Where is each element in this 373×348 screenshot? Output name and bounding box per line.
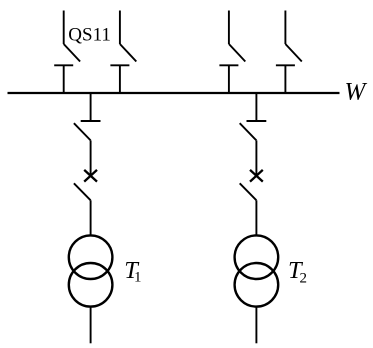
breaker contact cross stroke 1 — [84, 170, 97, 182]
svg-text:QS11: QS11 — [68, 24, 111, 45]
disconnect switch QS11 — [54, 11, 80, 95]
wire: right feeder stub from bus — [255, 93, 257, 121]
breaker blade — [74, 183, 91, 200]
QS22 blade — [285, 44, 301, 62]
wire: right feeder between disconnect and breaker — [255, 140, 257, 175]
QS12 fixed contact bar — [110, 64, 129, 66]
label T1 — [124, 257, 141, 286]
wire: T1 bottom lead — [90, 307, 92, 344]
breaker contact cross stroke 2 — [84, 170, 97, 182]
wire: QS11 stub to bus — [63, 65, 65, 94]
disconnect switch QS22 (4th from left) — [276, 11, 302, 95]
wire: T2 bottom lead — [255, 307, 257, 344]
wire: QS22 top lead — [284, 11, 286, 45]
wire: QS12 stub to bus — [119, 65, 121, 94]
wire: QS21 stub to bus — [228, 65, 230, 94]
circuit breaker QF2 (right feeder, x contact) — [240, 170, 263, 200]
T1 primary winding circle — [69, 235, 113, 279]
wire: left feeder between disconnect and breaker — [90, 140, 92, 175]
QS11 fixed contact bar — [54, 64, 73, 66]
wire: left feeder to transformer T1 — [90, 200, 92, 236]
disconnect switch (right feeder, below bus) — [240, 93, 267, 176]
T2 primary winding circle — [235, 235, 279, 279]
breaker blade — [240, 183, 257, 200]
disconnect switch (left feeder, below bus) — [74, 93, 101, 176]
QS12 blade — [120, 44, 136, 62]
left feeder disconnect blade — [74, 123, 91, 140]
wire: QS22 stub to bus — [284, 65, 286, 94]
circuit breaker QF1 (left feeder, x contact) — [74, 170, 97, 200]
svg-text:2: 2 — [300, 270, 308, 286]
breaker contact cross stroke 1 — [250, 170, 263, 182]
wire: QS12 top lead — [119, 11, 121, 45]
wire: QS21 top lead — [228, 11, 230, 45]
breaker contact cross stroke 2 — [250, 170, 263, 182]
svg-text:W: W — [345, 79, 368, 106]
wire: QS11 top lead — [63, 11, 65, 45]
QS21 blade — [229, 44, 245, 62]
disconnect switch QS21 (3rd from left) — [219, 11, 245, 95]
T1 secondary winding circle — [69, 263, 113, 307]
busbar W — [8, 92, 340, 94]
T2 secondary winding circle — [235, 263, 279, 307]
svg-text:1: 1 — [134, 269, 142, 285]
label T2 — [288, 257, 307, 287]
transformer T1 — [69, 235, 113, 306]
transformer T2 — [235, 235, 279, 306]
QS21 fixed contact bar — [219, 64, 238, 66]
disconnect switch QS12 (2nd from left) — [110, 11, 136, 95]
left feeder disconnect fixed contact bar — [81, 120, 101, 122]
right feeder disconnect fixed contact bar — [247, 120, 267, 122]
wire: left feeder stub from bus — [90, 93, 92, 121]
QS22 fixed contact bar — [276, 64, 295, 66]
right feeder disconnect blade — [240, 123, 257, 140]
QS11 blade — [64, 44, 80, 62]
wire: right feeder to transformer T2 — [255, 200, 257, 236]
